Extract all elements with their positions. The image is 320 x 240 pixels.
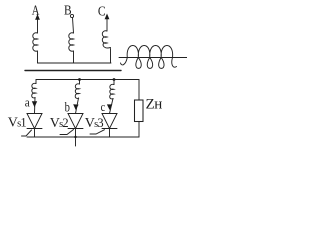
svg-text:Vs1: Vs1	[8, 116, 27, 131]
svg-text:Vs2: Vs2	[50, 116, 69, 131]
svg-text:Vs3: Vs3	[85, 116, 104, 131]
svg-text:Zн: Zн	[146, 97, 163, 113]
svg-text:A: A	[32, 3, 40, 18]
svg-text:b: b	[65, 100, 70, 115]
svg-text:c: c	[101, 99, 106, 114]
svg-text:B: B	[64, 3, 72, 18]
svg-text:a: a	[25, 94, 30, 109]
svg-text:C: C	[98, 3, 106, 18]
